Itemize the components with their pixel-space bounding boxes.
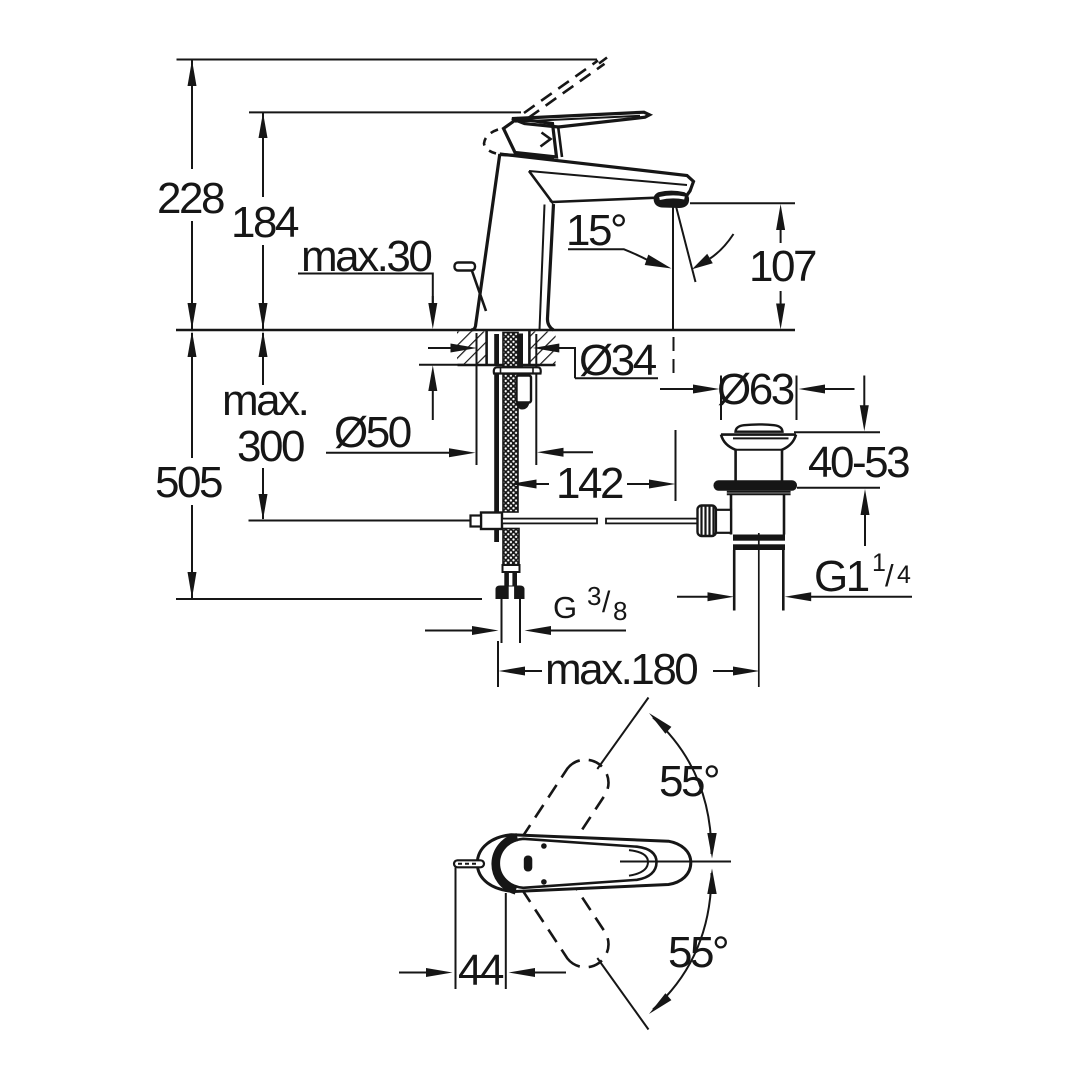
max.30 up arrow (to counter underside) (428, 365, 437, 391)
40-53 lower extension line (797, 487, 880, 489)
threaded shank lower (503, 529, 519, 566)
threaded shank upper (503, 333, 518, 367)
40-53 lower vertical + up arrow (861, 489, 870, 515)
top reference line (228 level) (177, 59, 598, 61)
diam63 dim line left + arrow (660, 388, 695, 390)
drain body right wall (783, 494, 786, 534)
svg-text:505: 505 (155, 458, 222, 507)
dimension max.300 vertical line (262, 333, 264, 385)
svg-text:/: / (602, 586, 611, 619)
hose nut (496, 586, 525, 600)
chevron mark on dome (541, 133, 551, 147)
diam50 second arrow (left-pointing, right of part) (537, 448, 564, 457)
drain lower black band 2 (733, 544, 785, 550)
diam50 right extension line (535, 334, 537, 465)
drain body left wall (730, 494, 733, 534)
handle detail dot lower (541, 879, 547, 885)
spout axis vertical line (672, 205, 674, 329)
angle arc upper (653, 718, 712, 855)
handle top surface inner cap line (right end) (629, 850, 648, 876)
svg-text:15°: 15° (566, 206, 625, 255)
tailpipe right wall (782, 550, 785, 611)
diam34 label underline (575, 377, 658, 379)
drain funnel right side (782, 435, 796, 481)
svg-text:40-53: 40-53 (808, 438, 909, 487)
raised lever (dashed) line 1 (524, 61, 598, 114)
lever blade (512, 112, 650, 127)
dimension 107 down arrow (776, 304, 785, 330)
dimension 142 right extension line (675, 430, 677, 501)
spout inner top line (529, 171, 687, 185)
lever blade inner line (515, 116, 640, 122)
15 degree underline + leader (568, 249, 648, 260)
counter section hatch right (529, 332, 555, 365)
ghost dome dashes (rotated handle position) (484, 130, 498, 154)
max.180 left extension line (497, 641, 499, 687)
15 degree leader arrowhead (645, 255, 672, 269)
angle arc lower (653, 873, 712, 1010)
svg-text:55°: 55° (659, 757, 718, 806)
body neck right outer edge (547, 204, 553, 330)
pull rod lower (dark) (494, 529, 499, 542)
diam63 dim line right + arrow (799, 385, 826, 394)
diam63 left extension line (720, 376, 722, 421)
angle arc lower top arrowhead (707, 869, 716, 895)
drain rubber seal (black) (714, 480, 798, 490)
bottom reference line (505 level) (176, 598, 482, 600)
svg-text:142: 142 (556, 459, 623, 508)
counter hole right edge (528, 331, 531, 365)
angle arc upper bottom arrowhead (707, 833, 716, 859)
dimension 184 vertical line (262, 113, 264, 197)
drain flange second line (733, 437, 789, 439)
handle top surface outline (499, 839, 657, 888)
15 degree curved arrowhead (692, 254, 713, 269)
svg-text:228: 228 (157, 174, 224, 223)
drain plug cap (736, 424, 783, 431)
flexible hose walls (501, 599, 503, 643)
dimension 184 bottom arrow (259, 303, 268, 330)
40-53 upper vertical + down arrow (863, 376, 865, 407)
max.30 counter underside extension line (419, 364, 464, 366)
svg-text:/: / (885, 558, 894, 593)
spout axis below counter (dashes) (673, 337, 675, 374)
svg-text:8: 8 (613, 596, 627, 626)
dimension 44 dim line left + arrow (399, 972, 427, 974)
linkage horizontal rod left segment (502, 519, 597, 524)
G1 1/4 dim line right + arrow (785, 592, 812, 601)
handle detail dot upper (541, 843, 547, 849)
pull rod diagonal (472, 270, 487, 312)
max.300 bottom reference line (249, 520, 476, 522)
faucet body outline (side view) (471, 154, 500, 330)
body neck right inner edge (540, 205, 545, 331)
dimension 505 bottom arrow (188, 572, 197, 599)
dimension 44 left extension line (455, 868, 457, 990)
raised lever (dashed) line 2 (529, 64, 605, 118)
pop-up linkage clamp block (481, 513, 502, 530)
drain funnel left side (721, 435, 736, 481)
knob neck (716, 510, 731, 533)
drain centerline (758, 533, 760, 687)
svg-text:44: 44 (458, 946, 504, 995)
svg-text:G1: G1 (814, 552, 869, 601)
svg-text:3: 3 (587, 581, 601, 611)
linkage horizontal rod right segment (606, 519, 698, 524)
svg-text:G: G (553, 590, 577, 625)
max.180 dim line right + arrow (713, 670, 734, 672)
diam34 dim line right + arrow (533, 344, 560, 353)
G3/8 dim line right + arrow (525, 626, 552, 635)
svg-text:Ø50: Ø50 (334, 408, 411, 457)
knurled adjuster knob (698, 506, 717, 537)
drain flange top (721, 433, 796, 436)
seal lower lip (727, 491, 791, 493)
ghost handle upper (dashed, rotated 55) (514, 760, 609, 881)
handle top view outer outline (477, 835, 691, 892)
G3/8 dim line left + arrow (425, 630, 472, 632)
raised lever tip dash (599, 58, 607, 64)
linkage rod end piece (471, 516, 482, 527)
dimension 228 bottom arrow (188, 303, 197, 330)
svg-text:4: 4 (897, 561, 911, 589)
40-53 upper extension line (794, 431, 880, 433)
handle centerline (620, 861, 731, 863)
spout inner V leg (529, 171, 552, 202)
body shoulder line under handle dome (500, 155, 554, 158)
angle arc lower bottom arrowhead (649, 993, 671, 1014)
pull rod mid (dark) (494, 374, 499, 514)
mounting bracket (517, 376, 532, 403)
diam50 left extension line (476, 333, 478, 465)
dimension 505 vertical line (191, 333, 193, 458)
dimension 228 vertical line (191, 60, 193, 169)
dimension 44 right extension line (505, 893, 507, 989)
G1 1/4 dim line left + arrow (677, 596, 709, 598)
pull rod upper (dark) (494, 334, 499, 366)
svg-text:300: 300 (237, 422, 304, 471)
cartridge crescent (heavy arc) (495, 837, 517, 891)
handle dome (504, 119, 557, 158)
dimension 107 up arrow (776, 204, 785, 230)
counter underside line (458, 364, 556, 367)
dimension 142 left arrow (510, 480, 537, 489)
svg-text:max.180: max.180 (545, 645, 697, 694)
diam50 dim line + right-pointing arrow (326, 452, 450, 454)
mounting washer (494, 367, 541, 373)
dimension max.300 bottom arrow (259, 494, 268, 520)
svg-text:107: 107 (749, 242, 816, 291)
handle-top reference line (184 level) (249, 111, 521, 113)
svg-text:Ø34: Ø34 (579, 336, 657, 385)
svg-text:184: 184 (231, 198, 299, 247)
drain lower black band 1 (733, 535, 785, 541)
drain funnel inner line (735, 449, 783, 451)
dimension 142 right arrow (649, 480, 676, 489)
dimension 505 top arrow (188, 331, 197, 357)
max.30 down arrow (to counter top) (428, 303, 437, 329)
dimension 44 dim line right + arrow (509, 968, 536, 977)
pop-up pull rod handle (left of body) (455, 263, 476, 271)
lever neck (558, 126, 562, 158)
threaded shank mid (503, 374, 518, 512)
counter top line (176, 329, 795, 332)
counter hole left edge (485, 331, 488, 365)
dimension max.300 top arrow (259, 331, 268, 357)
svg-text:55°: 55° (668, 928, 727, 977)
spout underside line (552, 197, 687, 204)
shank right locknut bar (dark) (519, 334, 524, 367)
15 degree curved arrow (710, 234, 734, 259)
handle pin (454, 860, 484, 867)
svg-text:max.: max. (222, 376, 307, 425)
dimension 184 top arrow (259, 113, 268, 139)
aerator (654, 191, 688, 207)
diam63 right extension line (796, 376, 798, 421)
dimension 107 vertical line (780, 230, 782, 243)
handle pin thread dashes (458, 863, 477, 865)
handle detail bar (524, 856, 533, 872)
mounting bracket nut (dark) (517, 403, 530, 410)
hose connector bars (504, 572, 509, 586)
ghost handle lower (dashed, rotated 55) (514, 847, 609, 968)
hose connector band (503, 565, 520, 572)
max.30 label underline + leader (298, 274, 433, 306)
dimension 228 top arrow (188, 60, 197, 86)
angle arc upper top arrowhead (649, 713, 671, 734)
spout top edge (500, 154, 694, 197)
svg-text:1: 1 (872, 549, 886, 577)
diam34 dim line left + arrow (428, 347, 451, 349)
washer ticks (500, 368, 502, 374)
spout outlet extension line (690, 202, 795, 204)
max.180 dim line left + arrow (499, 667, 526, 676)
radial line upper (597, 698, 648, 770)
radial line lower (597, 958, 648, 1030)
15 degree jet slant line (676, 208, 695, 283)
tailpipe left wall (733, 550, 736, 611)
svg-text:Ø63: Ø63 (717, 365, 794, 414)
counter section hatch left (457, 332, 487, 365)
